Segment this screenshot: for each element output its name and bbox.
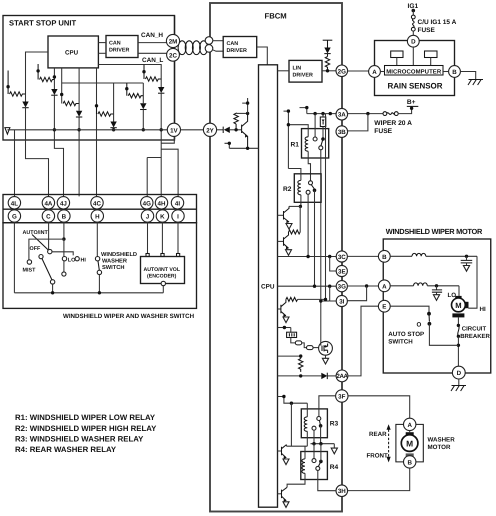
wire Q3 resistor to vertical B bbox=[298, 298, 326, 300]
svg-text:C: C bbox=[46, 214, 51, 221]
svg-text:R3: R3 bbox=[330, 421, 339, 428]
wire rail branch vertical B bbox=[325, 114, 327, 300]
resistor R-Q2 link bbox=[289, 230, 301, 234]
svg-text:B: B bbox=[452, 69, 457, 76]
connector 4H bbox=[155, 197, 167, 209]
wire rail to R4 fixed contact bbox=[313, 444, 315, 459]
filter block bbox=[290, 328, 292, 333]
node B-switch junction bbox=[62, 237, 65, 240]
R3 fixed contact bbox=[312, 426, 316, 430]
wire CAN driver to 2C bbox=[138, 52, 167, 54]
R1 lower contact bbox=[319, 146, 323, 150]
resistor R-N5 bbox=[128, 94, 143, 98]
wire CPU to R3 coil feed bbox=[278, 397, 308, 404]
connector 2C bbox=[167, 48, 180, 61]
node N1 stub bbox=[7, 71, 9, 95]
diode D-N1 bbox=[22, 102, 28, 108]
mosfet U6 (in circle) bbox=[319, 341, 333, 355]
wire bead2 to mosfet gate bbox=[313, 347, 319, 349]
connector 3H bbox=[336, 485, 348, 497]
wire B drop bbox=[63, 222, 65, 239]
wire ground bus to 1V bbox=[7, 130, 167, 197]
svg-text:RAIN SENSOR: RAIN SENSOR bbox=[388, 82, 443, 91]
wire 3A to fuse bbox=[348, 113, 383, 115]
transistor Q1 (R2 driver) bbox=[278, 214, 284, 216]
contact washer bottom bbox=[97, 270, 101, 274]
connector 4I bbox=[171, 197, 183, 209]
transistor Q0 (2Y input) bbox=[242, 113, 248, 148]
svg-text:FUSE: FUSE bbox=[418, 27, 436, 34]
R4 moving arm bbox=[318, 461, 321, 466]
wire B to chassis ground bbox=[460, 72, 475, 80]
connector 3C bbox=[336, 251, 347, 262]
sensor element left bbox=[391, 51, 403, 58]
wire R3 pivot down bbox=[320, 426, 322, 444]
connector J bbox=[141, 210, 153, 222]
connector K bbox=[156, 210, 168, 222]
svg-text:A: A bbox=[382, 283, 387, 290]
pad K bbox=[161, 254, 164, 257]
svg-text:LO: LO bbox=[68, 257, 76, 263]
auto stop switch contact 1 bbox=[427, 312, 431, 316]
svg-text:2G: 2G bbox=[338, 68, 346, 75]
svg-text:R2: WINDSHIELD WIPER HIGH RELA: R2: WINDSHIELD WIPER HIGH RELAY bbox=[15, 424, 157, 433]
svg-text:2C: 2C bbox=[169, 52, 177, 59]
connector 3B bbox=[336, 126, 348, 138]
diode D-N2 bbox=[51, 89, 57, 95]
svg-text:R3: WINDSHIELD WASHER RELAY: R3: WINDSHIELD WASHER RELAY bbox=[15, 435, 144, 444]
R1 moving arm bbox=[321, 139, 323, 146]
svg-text:4C: 4C bbox=[93, 200, 101, 207]
wire rail to R1 fixed contact bbox=[314, 114, 316, 137]
svg-text:I: I bbox=[177, 214, 179, 221]
svg-text:WINDSHIELD WIPER AND WASHER SW: WINDSHIELD WIPER AND WASHER SWITCH bbox=[63, 313, 195, 320]
svg-text:MICROCOMPUTER: MICROCOMPUTER bbox=[386, 68, 442, 75]
connector 3A bbox=[336, 108, 348, 120]
wire J to encoder bbox=[147, 222, 149, 253]
connector B (wiper motor) bbox=[378, 250, 390, 262]
B+ terminal bbox=[407, 105, 419, 107]
R4 pivot contact bbox=[319, 460, 323, 464]
resistor R-N1 bbox=[10, 92, 26, 96]
connector E (wiper motor) bbox=[378, 300, 390, 312]
node N6 stub bbox=[143, 65, 145, 80]
svg-text:AUTO/INT VOL: AUTO/INT VOL bbox=[144, 267, 181, 273]
leader line AUTO/INT bbox=[32, 235, 48, 250]
svg-text:R2: R2 bbox=[283, 186, 292, 193]
svg-text:WASHER: WASHER bbox=[102, 259, 127, 265]
svg-text:CAN: CAN bbox=[227, 41, 239, 47]
wire R4 coil bottom bbox=[287, 473, 305, 487]
svg-text:DRIVER: DRIVER bbox=[227, 48, 247, 54]
connector 4A bbox=[42, 197, 54, 209]
wire emitter line to CPU bbox=[229, 147, 258, 149]
connector row box bbox=[3, 195, 197, 223]
svg-text:HI: HI bbox=[81, 257, 87, 263]
contact LO bbox=[62, 257, 66, 261]
R2 lower contact bbox=[306, 190, 310, 194]
connector C bbox=[42, 210, 54, 222]
resistor R-N4 bbox=[97, 106, 114, 116]
svg-text:H: H bbox=[95, 214, 100, 221]
wire 3G line bbox=[278, 285, 337, 287]
wire N3 vertical bbox=[78, 68, 80, 197]
svg-text:4G: 4G bbox=[143, 200, 151, 207]
capacitor C-A bbox=[436, 286, 438, 290]
resistor R-Q3 bbox=[286, 297, 298, 301]
bead component 2 bbox=[307, 346, 314, 350]
wire 3C line bbox=[278, 256, 337, 258]
svg-text:K: K bbox=[160, 214, 165, 221]
svg-text:WINDSHIELD WIPER MOTOR: WINDSHIELD WIPER MOTOR bbox=[386, 227, 483, 236]
small loop circle upper (FBCM edge) bbox=[205, 37, 213, 45]
diode D-N5 bbox=[140, 103, 146, 109]
R2 coil bbox=[298, 180, 301, 194]
wire pivot to bus bbox=[52, 284, 54, 293]
connector 3E bbox=[336, 265, 347, 276]
svg-text:3F: 3F bbox=[338, 394, 345, 401]
svg-text:3H: 3H bbox=[338, 488, 346, 495]
wire 1V to 2Y bbox=[181, 129, 204, 131]
wire 3E riser bbox=[330, 257, 337, 272]
svg-text:CIRCUIT: CIRCUIT bbox=[462, 326, 487, 333]
svg-text:WASHER: WASHER bbox=[428, 437, 456, 444]
svg-text:R4: REAR WASHER RELAY: R4: REAR WASHER RELAY bbox=[15, 445, 117, 454]
svg-text:WIPER 20 A: WIPER 20 A bbox=[374, 120, 412, 127]
wire R3 coil top bbox=[306, 403, 308, 417]
node N5 stub bbox=[126, 83, 128, 96]
lower selector contact below LO bbox=[63, 261, 65, 272]
connector 2AA bbox=[336, 370, 348, 382]
fuse C/U IG1 15 A bbox=[412, 11, 414, 16]
R2 moving arm bbox=[311, 185, 314, 190]
wire R3 coil bottom bbox=[306, 431, 308, 446]
wire 2Y to input diode bbox=[217, 129, 224, 131]
wire microcomputer to B bbox=[443, 71, 449, 73]
connector G bbox=[8, 210, 20, 222]
contact OFF bbox=[39, 255, 43, 259]
svg-text:MIST: MIST bbox=[23, 268, 37, 274]
wire N4 vertical bbox=[113, 83, 115, 130]
svg-text:G: G bbox=[12, 214, 17, 221]
wire 1V drop staircase to 4G 4H 4I bbox=[147, 136, 178, 196]
START STOP UNIT box bbox=[3, 16, 175, 141]
diode D-N3 bbox=[76, 111, 82, 117]
encoder output contact bbox=[161, 281, 165, 285]
svg-text:A: A bbox=[407, 422, 412, 429]
wire R4 contact to 3H bbox=[318, 470, 336, 490]
wire 4C drop from CPU corner bbox=[96, 68, 98, 197]
wire choke to LO bbox=[427, 286, 459, 298]
R3 relay box bbox=[301, 409, 327, 438]
wire R1 coil bottom to R2 contact bbox=[308, 151, 310, 180]
wire 3F to R3 contact bbox=[319, 396, 336, 417]
wire washer motor B to 3H bbox=[348, 468, 410, 491]
pad I bbox=[177, 254, 180, 257]
wire A to choke bbox=[390, 285, 413, 287]
wire FBCM CAN driver to CPU bbox=[257, 47, 268, 65]
switch common bus bbox=[14, 292, 163, 294]
FBCM box bbox=[210, 3, 342, 512]
stub node left of emitter line bbox=[225, 143, 230, 148]
circuit breaker CB1 bbox=[457, 324, 460, 327]
auto stop lever bbox=[428, 314, 430, 322]
wire diode to 2AA bbox=[327, 375, 336, 377]
wire bead1 to bead2 bbox=[302, 343, 307, 348]
pad J bbox=[146, 254, 149, 257]
wire 2AA to wiper motor E bbox=[348, 306, 379, 376]
connector 2Y bbox=[203, 123, 216, 136]
svg-text:B+: B+ bbox=[407, 99, 416, 106]
contact AUTO/INT bbox=[48, 249, 52, 253]
wire mosfet source to ground bbox=[325, 355, 327, 358]
wire mosfet drain from vertical A bbox=[320, 344, 322, 346]
connector B bbox=[58, 210, 70, 222]
svg-text:D: D bbox=[457, 370, 462, 377]
connector 4C bbox=[91, 197, 103, 209]
wire CPU to opto gate bbox=[278, 327, 291, 329]
resistor network N1 feed from CPU bbox=[26, 52, 49, 94]
svg-text:C/U IG1 15 A: C/U IG1 15 A bbox=[418, 19, 457, 26]
rail1 feed from CPU right bbox=[98, 65, 161, 88]
connector 3I bbox=[336, 295, 347, 306]
diode D-N4 bbox=[110, 122, 116, 128]
connector 1V bbox=[167, 123, 180, 136]
wire N6/4H column bbox=[160, 93, 162, 196]
svg-text:HI: HI bbox=[480, 306, 486, 313]
wire auto stop to motor line bbox=[429, 324, 458, 346]
bead component 1 bbox=[295, 341, 302, 345]
resistor R-2G bbox=[325, 54, 329, 71]
resistor R-2Y bbox=[234, 113, 238, 130]
svg-text:CAN_H: CAN_H bbox=[141, 32, 163, 39]
zener chain above 2G: top bar bbox=[323, 39, 333, 41]
svg-text:FUSE: FUSE bbox=[374, 128, 392, 135]
unit right edge wire segment above 2M bbox=[174, 16, 176, 140]
wire R3/R4 feed drop bbox=[290, 403, 292, 446]
rail2 feed from CPU bottom bbox=[61, 68, 63, 104]
diode D-N6 bbox=[158, 87, 164, 93]
transistor Q4 (R3 driver) bbox=[278, 450, 282, 452]
diode D-2G bbox=[327, 40, 329, 47]
wire 3I outside link to 3G net bbox=[347, 286, 366, 301]
wire A to microcomputer bbox=[380, 71, 384, 73]
connector row divider bbox=[3, 208, 197, 210]
R3 pivot contact bbox=[319, 424, 323, 428]
wire CAN driver to 2M bbox=[138, 42, 167, 44]
wire loop to FBCM CAN driver upper bbox=[213, 40, 223, 42]
svg-text:2M: 2M bbox=[169, 39, 178, 46]
wire 3B loop to fuse node bbox=[348, 114, 368, 131]
R3 coil bbox=[304, 417, 307, 431]
svg-text:AUTO STOP: AUTO STOP bbox=[388, 331, 424, 338]
3A supply rail bbox=[307, 113, 336, 115]
transistor Q2 (R2 driver 2) bbox=[278, 240, 284, 242]
wire LIN driver to 2G bbox=[322, 70, 336, 72]
wire AUTO/INT contact to HI contact bbox=[52, 252, 73, 256]
svg-text:FRONT: FRONT bbox=[367, 452, 389, 459]
ground arrow below Q1 bbox=[286, 224, 292, 230]
wire R2 pivot to 3G line bbox=[314, 190, 316, 286]
chassis ground (rain sensor) bbox=[468, 80, 483, 86]
R1 coil bbox=[305, 137, 308, 151]
svg-text:2AA: 2AA bbox=[336, 373, 348, 380]
R1 relay box bbox=[302, 129, 329, 158]
svg-text:CPU: CPU bbox=[65, 50, 79, 57]
svg-text:4H: 4H bbox=[158, 200, 166, 207]
connector 2G bbox=[336, 65, 348, 77]
transistor Q3 (3G driver) bbox=[278, 308, 281, 310]
wire rail to R4 pivot bbox=[320, 444, 322, 462]
capacitor C-B bbox=[466, 256, 468, 260]
resistor R-6A pullup bbox=[299, 356, 303, 372]
svg-text:CAN_L: CAN_L bbox=[142, 57, 163, 64]
resistor R-N2 bbox=[40, 77, 55, 81]
small loop circle lower (FBCM edge) bbox=[205, 45, 213, 53]
wire down to HI terminal bbox=[468, 256, 477, 308]
switch unit box bbox=[3, 223, 197, 309]
connector A (washer motor) bbox=[404, 418, 416, 430]
R4 fixed contact bbox=[312, 459, 316, 463]
wire encoder to bus bbox=[162, 286, 164, 293]
washer motor bracket bbox=[396, 424, 423, 462]
ground arrow below capacitor C-B bbox=[463, 266, 469, 272]
ground (start stop unit) bbox=[5, 128, 10, 135]
wire 6A line from CPU bbox=[278, 375, 322, 377]
ground arrow below capacitor C-A bbox=[433, 295, 439, 301]
twisted pair loops bbox=[178, 41, 208, 55]
wire C to AUTO/INT contact bbox=[48, 222, 50, 249]
RAIN SENSOR box bbox=[375, 41, 455, 96]
wire I to encoder bbox=[177, 222, 179, 253]
ground arrow below Q2 bbox=[286, 250, 292, 256]
choke L2 bbox=[414, 283, 428, 286]
ground arrow below mosfet bbox=[322, 358, 328, 364]
wire D to microcomputer bbox=[412, 47, 414, 65]
svg-text:AUTO/INT: AUTO/INT bbox=[23, 230, 49, 236]
wire R2 coil bottom bbox=[300, 195, 302, 207]
svg-text:4A: 4A bbox=[44, 200, 52, 207]
resistor network N2 drop from CPU bbox=[53, 68, 55, 89]
connector I bbox=[172, 210, 184, 222]
switch stub on rail bbox=[300, 108, 307, 114]
wire Q4 collector to coil rail bbox=[287, 445, 308, 447]
wire B to choke bbox=[390, 255, 412, 257]
chassis ground (wiper motor) bbox=[451, 386, 466, 392]
wire N2 to bus and 4J bbox=[54, 95, 63, 196]
wire R4 coil top feed bbox=[304, 446, 306, 459]
svg-text:4J: 4J bbox=[60, 200, 67, 207]
wire CPU to CAN driver (CAN_H side) bbox=[98, 42, 106, 44]
wire fuse to B+ bbox=[398, 106, 411, 113]
svg-text:2Y: 2Y bbox=[206, 127, 214, 134]
R2 top contact bbox=[309, 181, 313, 185]
contact washer top bbox=[95, 257, 99, 261]
svg-text:B: B bbox=[407, 459, 412, 466]
R4 coil bbox=[302, 459, 305, 473]
diode D-2Y (pointing left) bbox=[222, 127, 224, 133]
svg-text:R1: WINDSHIELD WIPER LOW RELAY: R1: WINDSHIELD WIPER LOW RELAY bbox=[15, 413, 156, 422]
encoder box AUTO/INT VOL bbox=[141, 257, 185, 284]
ground arrow below Q3 bbox=[283, 317, 289, 323]
svg-text:J: J bbox=[146, 214, 150, 221]
svg-text:3B: 3B bbox=[338, 129, 346, 136]
node N2 stub bbox=[37, 64, 39, 80]
wire E to auto stop switch bbox=[390, 306, 429, 314]
arrow box component bbox=[320, 117, 326, 127]
wiper switch lever bbox=[42, 259, 52, 280]
svg-text:DRIVER: DRIVER bbox=[293, 73, 313, 79]
wire resistor top to collector rail bbox=[236, 112, 248, 114]
ground arrow right of rail bbox=[331, 448, 337, 454]
svg-text:BREAKER: BREAKER bbox=[460, 333, 490, 340]
connector A (wiper motor) bbox=[378, 280, 390, 292]
WINDSHIELD WIPER MOTOR box bbox=[383, 239, 491, 373]
R1 fixed contact bbox=[313, 137, 317, 141]
ground arrow below Q5 bbox=[283, 502, 289, 508]
wire washer to bus bbox=[98, 275, 100, 293]
wire CPU to pullup node bbox=[278, 355, 301, 357]
wiper switch pivot contact bbox=[50, 280, 54, 284]
svg-text:R4: R4 bbox=[330, 464, 339, 471]
transistor Q5 (R4 driver) bbox=[278, 493, 282, 495]
connector B (washer motor) bbox=[404, 456, 416, 468]
svg-text:1V: 1V bbox=[170, 127, 178, 134]
CAN DRIVER U2 (start stop unit) bbox=[106, 36, 138, 58]
svg-text:REAR: REAR bbox=[369, 431, 387, 438]
connector 4L bbox=[8, 197, 20, 209]
resistor R-N6 bbox=[145, 77, 161, 81]
svg-text:B: B bbox=[382, 254, 387, 261]
svg-text:DRIVER: DRIVER bbox=[109, 48, 129, 54]
connector 4J bbox=[57, 197, 69, 209]
wire rail through arrow box to R1 pivot bbox=[322, 114, 324, 138]
contact HI bbox=[75, 257, 79, 261]
svg-text:LIN: LIN bbox=[293, 66, 302, 72]
wire D to chassis ground bbox=[458, 379, 460, 386]
svg-text:MOTOR: MOTOR bbox=[428, 444, 451, 451]
wire CPU to LIN driver bbox=[278, 70, 290, 72]
svg-text:B: B bbox=[62, 214, 67, 221]
MICROCOMPUTER box bbox=[385, 66, 444, 76]
supply stub with node bbox=[242, 98, 247, 113]
wire choke to HI branch bbox=[426, 255, 477, 257]
svg-text:O: O bbox=[417, 322, 422, 329]
svg-text:OFF: OFF bbox=[30, 246, 41, 252]
LIN DRIVER U5 bbox=[289, 60, 322, 82]
node N4 tap bbox=[95, 104, 98, 107]
svg-text:4L: 4L bbox=[11, 200, 18, 207]
wire N1 to 4A bbox=[26, 94, 49, 196]
svg-text:3E: 3E bbox=[338, 269, 346, 276]
wire H drop to washer switch bbox=[96, 222, 98, 256]
svg-text:3I: 3I bbox=[339, 299, 344, 306]
wire breaker to D bbox=[457, 336, 459, 366]
connector B (rain sensor) bbox=[449, 66, 461, 78]
svg-text:SWITCH: SWITCH bbox=[388, 339, 413, 346]
svg-text:E: E bbox=[382, 304, 386, 311]
R2 pivot contact bbox=[313, 189, 317, 193]
wire K to encoder bbox=[161, 222, 163, 253]
R2 relay box bbox=[294, 174, 321, 203]
svg-text:SWITCH: SWITCH bbox=[102, 265, 124, 271]
direction arrow REAR/FRONT bbox=[388, 430, 390, 458]
CAN DRIVER U3 (FBCM) bbox=[223, 37, 257, 58]
wire R2 lower contact to 3C line bbox=[307, 194, 309, 256]
wire filter to bead1 bbox=[291, 338, 296, 343]
wire 3G to wiper motor A bbox=[347, 285, 378, 287]
svg-text:3C: 3C bbox=[338, 254, 346, 261]
